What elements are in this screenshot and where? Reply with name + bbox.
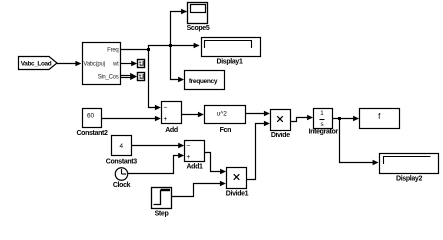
- svg-text:u^2: u^2: [217, 110, 228, 117]
- svg-text:+: +: [163, 116, 167, 123]
- svg-text:Fcn: Fcn: [220, 127, 231, 134]
- wire Add to Fcn: [182, 112, 204, 118]
- PLL block U1: [83, 43, 121, 85]
- svg-text:Vabc(pu): Vabc(pu): [83, 62, 105, 68]
- goto f block: [360, 109, 400, 129]
- wire Sin_Cos output (vector double line): [121, 73, 138, 80]
- svg-text:wt: wt: [112, 62, 119, 68]
- wire Fcn to Divide top: [246, 111, 270, 117]
- wire Constant2 to Add plus: [102, 116, 161, 122]
- svg-text:s: s: [320, 121, 323, 128]
- svg-text:frequency: frequency: [189, 78, 218, 85]
- constant Constant3 value 4: [106, 136, 138, 166]
- product Divide1: [226, 168, 249, 198]
- svg-text:Sin_Cos: Sin_Cos: [98, 75, 119, 81]
- svg-text:Divide1: Divide1: [226, 191, 249, 198]
- wire Integrator to f block: [333, 116, 360, 122]
- svg-text:Clock: Clock: [113, 182, 131, 189]
- svg-text:Display2: Display2: [396, 176, 422, 183]
- svg-text:Constant2: Constant2: [76, 130, 108, 137]
- step Step: [152, 188, 172, 218]
- scope Scope5: [187, 3, 210, 33]
- integrator Integrator 1/s: [309, 109, 339, 136]
- clock Clock: [113, 168, 131, 189]
- node branch down to Add minus: [147, 48, 161, 110]
- svg-text:Divide: Divide: [271, 132, 290, 139]
- wire Freq output to Display1: [121, 43, 200, 50]
- node branch down to Display2: [338, 117, 379, 165]
- svg-text:Freq: Freq: [107, 48, 118, 54]
- wire Vabc_Load to PLL input: [57, 61, 81, 67]
- svg-text:Display1: Display1: [217, 59, 243, 66]
- display Display1: [202, 38, 261, 66]
- constant Constant2 value 60: [76, 109, 108, 137]
- goto frequency: [185, 71, 225, 90]
- svg-text:Step: Step: [155, 210, 169, 217]
- wire Add1 to Divide1 top: [205, 153, 227, 175]
- node trunk branch to Scope5 and frequency: [169, 9, 187, 83]
- svg-text:Vabc_Load: Vabc_Load: [21, 61, 52, 68]
- terminator small block 1: [138, 60, 145, 68]
- svg-text:Integrator: Integrator: [309, 129, 339, 136]
- wire Step to Divide1 bottom: [172, 181, 226, 197]
- svg-text:1: 1: [320, 110, 324, 117]
- wire Divide to Integrator: [291, 115, 314, 122]
- svg-text:60: 60: [87, 113, 95, 120]
- svg-text:Scope5: Scope5: [187, 25, 210, 32]
- svg-text:4: 4: [119, 143, 123, 150]
- display Display2: [380, 154, 439, 183]
- From tag Vabc_Load: [19, 57, 58, 70]
- wire wt output: [121, 61, 138, 67]
- svg-text:−: −: [163, 104, 167, 111]
- wire Clock to Add1 plus: [128, 153, 185, 174]
- sum Add: [162, 102, 182, 134]
- product Divide: [271, 110, 291, 140]
- svg-text:Add: Add: [165, 127, 178, 134]
- svg-text:−: −: [186, 143, 190, 150]
- svg-text:Add1: Add1: [186, 164, 203, 171]
- svg-text:Constant3: Constant3: [106, 159, 138, 166]
- sum Add1: [185, 141, 205, 171]
- wire Constant3 to Add1 minus: [132, 143, 185, 149]
- fcn Fcn u^2: [205, 106, 246, 135]
- wire Divide1 to Divide bottom: [247, 121, 270, 180]
- terminator small block 2: [138, 73, 145, 81]
- svg-text:+: +: [186, 154, 190, 161]
